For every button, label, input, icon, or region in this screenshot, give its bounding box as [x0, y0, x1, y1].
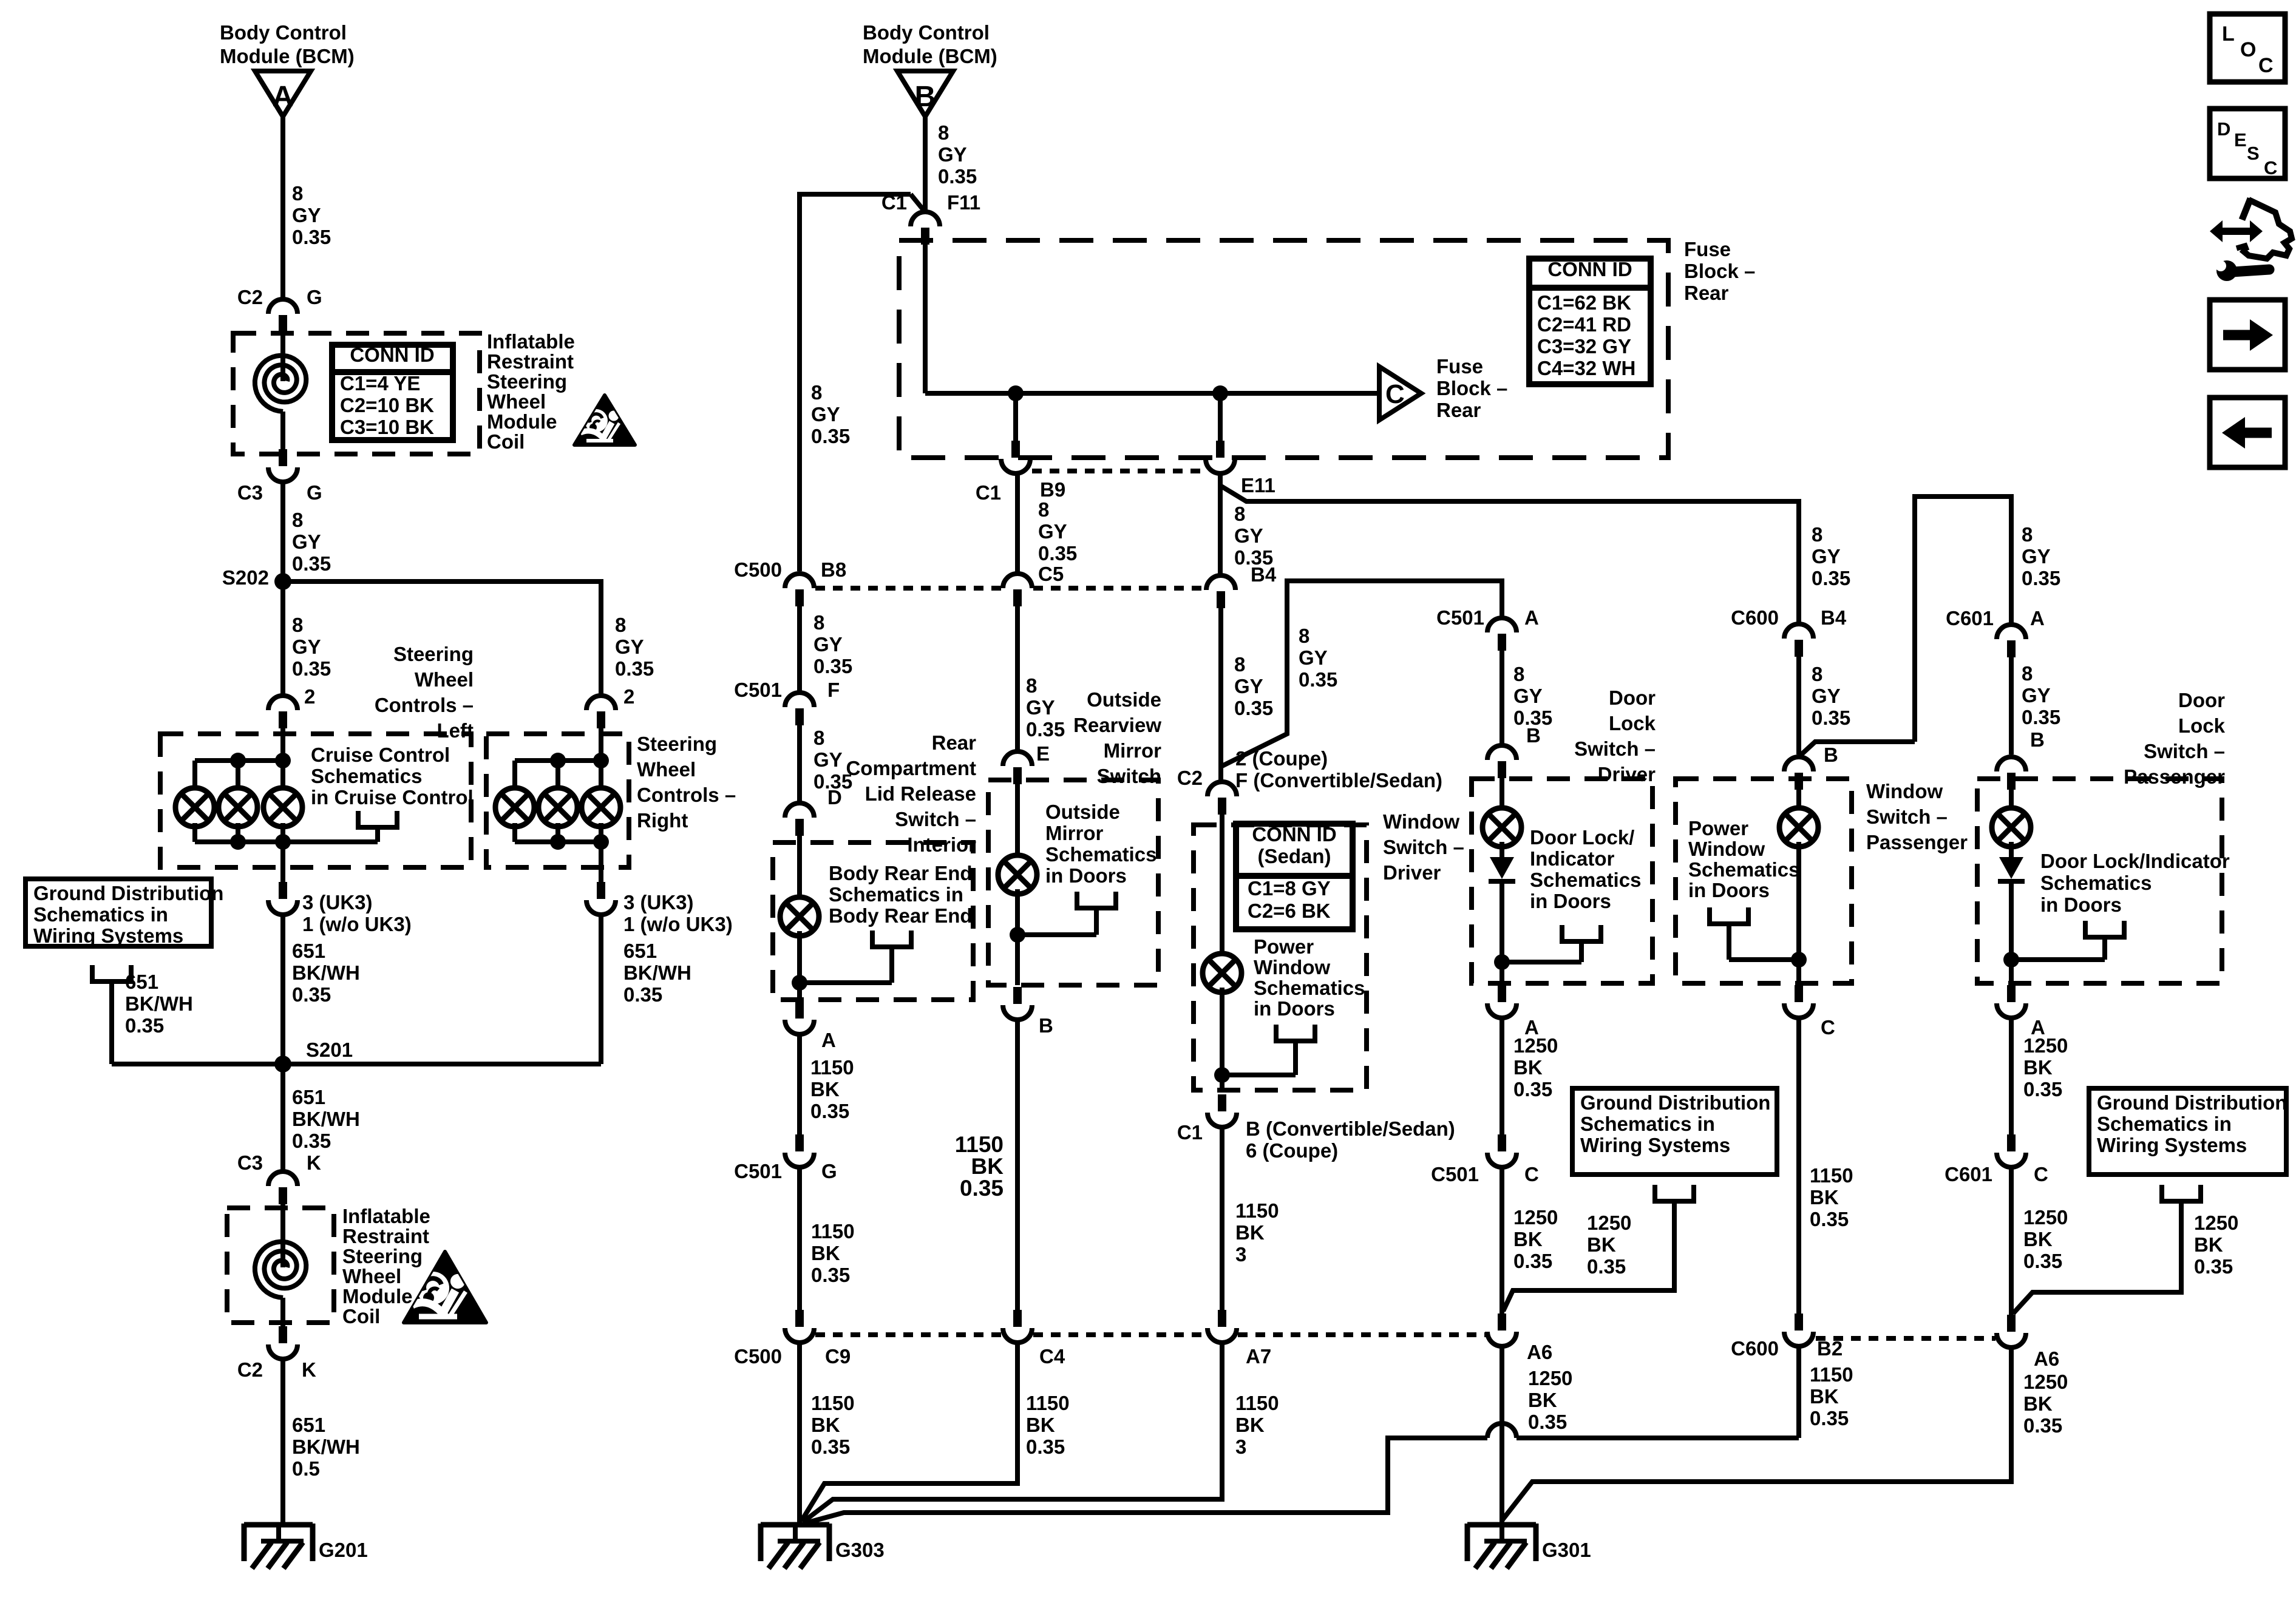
S201 horizontal [112, 1062, 601, 1066]
wire in right box [599, 728, 603, 790]
svg-text:G: G [821, 1160, 837, 1182]
wire B2 to G303 [804, 1346, 1799, 1524]
svg-text:A: A [2030, 607, 2045, 629]
connector B (col B) [1003, 987, 1032, 1020]
svg-text:Inflatable: Inflatable [487, 330, 575, 353]
label B (col E) [1824, 744, 1838, 766]
connector B9/E11 labels [976, 474, 1275, 504]
svg-text:Lock: Lock [2178, 714, 2226, 737]
svg-text:C500: C500 [734, 558, 782, 581]
svg-text:in Doors: in Doors [2040, 893, 2122, 916]
label 8 GY 0.35 (bridge) [2022, 523, 2060, 589]
label Inflatable Restraint SWM Coil 1 [487, 330, 575, 453]
coil box 1 (dashed) [233, 333, 480, 454]
label Outside Mirror Schematics [1045, 801, 1156, 887]
pw bus [1729, 957, 1799, 962]
svg-text:BK: BK [971, 1154, 1004, 1179]
svg-text:Wheel: Wheel [415, 668, 474, 691]
label 8 GY 0.35 (below C3) [292, 509, 331, 575]
cruise bottom stubs [195, 823, 283, 844]
branch to C501A [1222, 581, 1502, 766]
svg-text:GY: GY [1234, 675, 1263, 697]
svg-text:B: B [1039, 1014, 1053, 1037]
svg-text:Schematics: Schematics [1254, 977, 1365, 999]
svg-text:8: 8 [1038, 498, 1049, 521]
wire B to C4 [1015, 1020, 1020, 1310]
cruise lamp 3 [263, 788, 302, 827]
label B (col D) [1526, 724, 1541, 747]
svg-text:CONN ID: CONN ID [1547, 258, 1632, 280]
connector E [1003, 751, 1032, 784]
wire E11 down [1218, 473, 1223, 574]
svg-text:Window: Window [1383, 810, 1459, 833]
svg-text:Mirror: Mirror [1045, 822, 1104, 844]
svg-text:1250: 1250 [2023, 1034, 2068, 1057]
svg-text:BK: BK [811, 1242, 840, 1264]
svg-text:0.35: 0.35 [1812, 707, 1850, 729]
svg-text:0.35: 0.35 [1810, 1407, 1849, 1429]
wire A to B (col D) [1500, 651, 1504, 745]
svg-text:8: 8 [813, 727, 824, 749]
connector C5 [1003, 563, 1064, 606]
svg-text:BK: BK [2023, 1228, 2053, 1250]
fuse block rear box (dashed) [899, 240, 1668, 458]
svg-text:C: C [1385, 379, 1405, 409]
svg-text:Steering: Steering [637, 733, 717, 755]
svg-text:Body Control: Body Control [863, 21, 990, 44]
svg-text:in Doors: in Doors [1045, 864, 1127, 887]
svg-text:Schematics in: Schematics in [1580, 1113, 1715, 1135]
wire in mirror box [1015, 784, 1020, 860]
svg-text:Inflatable: Inflatable [342, 1205, 430, 1227]
svg-text:651: 651 [292, 1086, 325, 1108]
wire C601C to A6 [2009, 1167, 2014, 1315]
label Inflatable Restraint SWM Coil 2 [342, 1205, 430, 1327]
label 1150 BK 0.35 (B2) [1810, 1363, 1853, 1429]
svg-text:0.35: 0.35 [1528, 1411, 1567, 1433]
svg-text:0.35: 0.35 [615, 657, 654, 680]
svg-text:Driver: Driver [1598, 763, 1656, 785]
connector C601/A [1997, 625, 2026, 657]
SIR warning triangle 1 [574, 395, 635, 445]
svg-text:A7: A7 [1246, 1345, 1271, 1368]
connector C1/F11 labels [881, 191, 980, 214]
svg-text:C1=8 GY: C1=8 GY [1248, 877, 1331, 900]
label 1150 BK 3 (C1) [1235, 1199, 1279, 1266]
dld bus [1502, 960, 1581, 964]
svg-text:C3=32 GY: C3=32 GY [1537, 335, 1631, 358]
wire in rear box [797, 836, 802, 902]
svg-text:GY: GY [1513, 685, 1543, 707]
svg-text:A: A [821, 1029, 836, 1051]
wire out of coil 1 [280, 412, 285, 449]
svg-text:Door: Door [1609, 686, 1656, 709]
svg-text:B (Convertible/Sedan): B (Convertible/Sedan) [1246, 1117, 1455, 1140]
svg-text:Coil: Coil [342, 1305, 380, 1327]
svg-text:G: G [307, 286, 322, 308]
right lamp 3 [582, 788, 620, 827]
connector C2/K labels [237, 1358, 316, 1381]
svg-text:Door Lock/: Door Lock/ [1530, 826, 1634, 849]
svg-text:C600: C600 [1731, 1337, 1779, 1360]
right bottom dots [550, 834, 609, 850]
svg-text:Door: Door [2178, 689, 2225, 711]
svg-text:Fuse: Fuse [1436, 355, 1483, 378]
svg-text:C2: C2 [237, 1358, 263, 1381]
label 8 GY 0.35 (C600) [1812, 663, 1850, 729]
wire below mirror lamp [1015, 889, 1020, 985]
svg-text:Schematics in: Schematics in [2097, 1113, 2232, 1135]
svg-text:8: 8 [1812, 523, 1822, 546]
BCM label left [220, 21, 355, 67]
label 8 GY 0.35 (E11-B4) [1234, 503, 1273, 569]
wire right branch to S201 [599, 915, 603, 1064]
wire C501C to A6 [1500, 1167, 1504, 1314]
wire E11 branch right [1220, 473, 1799, 624]
wire B inside fuse box [923, 244, 928, 393]
svg-text:3: 3 [1235, 1436, 1246, 1458]
svg-text:D: D [827, 786, 842, 808]
label 1250 BK 0.35 (ref right) [2194, 1212, 2238, 1278]
svg-text:C: C [2264, 157, 2277, 178]
svg-text:2 (Coupe): 2 (Coupe) [1235, 747, 1328, 770]
svg-text:B: B [915, 81, 936, 113]
svg-text:Switch –: Switch – [1383, 836, 1464, 858]
svg-text:Block –: Block – [1436, 377, 1507, 399]
dlp dot [2003, 952, 2019, 968]
wire B8 to C501F [797, 606, 802, 693]
svg-text:0.35: 0.35 [292, 1130, 331, 1152]
svg-text:8: 8 [292, 614, 303, 636]
svg-text:C2: C2 [1177, 767, 1203, 789]
svg-text:B: B [1526, 724, 1541, 747]
label 651 BK/WH (below S201) [292, 1086, 360, 1152]
svg-text:1150: 1150 [1026, 1392, 1070, 1414]
wire A6 to G301 [1500, 1346, 1504, 1525]
connector C501/C labels [1431, 1163, 1539, 1185]
svg-text:Schematics: Schematics [311, 765, 422, 787]
svg-text:S: S [2247, 143, 2260, 164]
connector C2 colC [1207, 782, 1237, 815]
cruise bottom dots [230, 834, 291, 850]
svg-text:GY: GY [1812, 685, 1841, 707]
cruise bottom bus [195, 839, 378, 844]
connector 2 left [268, 696, 297, 728]
label 2 right [623, 685, 634, 708]
svg-text:Schematics: Schematics [1688, 858, 1799, 881]
cruise top dots [230, 753, 291, 768]
wire out of coil 2 [280, 1298, 285, 1326]
label 8 GY 0.35 (F-D) [813, 727, 852, 793]
label Door Lock Indicator Schematics (driver) [1530, 826, 1641, 912]
svg-text:Wheel: Wheel [487, 390, 546, 413]
svg-text:0.35: 0.35 [292, 226, 331, 248]
winsw lamp [1203, 954, 1241, 992]
svg-text:651: 651 [292, 1414, 325, 1436]
label 8 GY 0.35 (B9-C5) [1038, 498, 1077, 564]
right bottom bus [515, 839, 601, 844]
svg-text:C: C [2258, 54, 2274, 77]
right top bus [515, 761, 601, 792]
connector E11 [1206, 441, 1235, 473]
label A7 [1246, 1345, 1271, 1368]
svg-text:C5: C5 [1038, 563, 1064, 585]
wire BCM-B down [923, 117, 928, 210]
svg-text:8: 8 [2022, 523, 2033, 546]
right lamp 2 [538, 788, 577, 827]
connector D [785, 803, 814, 836]
wire C3 to S202 [280, 482, 285, 581]
svg-text:Window: Window [1688, 838, 1765, 860]
svg-text:1250: 1250 [1513, 1034, 1558, 1057]
connector C1/F11 [911, 212, 940, 245]
wire in dlp box [2009, 790, 2014, 812]
svg-text:C2=41 RD: C2=41 RD [1537, 313, 1631, 336]
node S201 [274, 1039, 353, 1073]
svg-text:Schematics: Schematics [2040, 872, 2152, 894]
connector C1 (col C bottom) [1207, 1094, 1237, 1127]
svg-text:Module: Module [342, 1285, 412, 1307]
svg-text:Block –: Block – [1684, 260, 1755, 282]
connector C2 labels [237, 286, 322, 308]
label 8 GY 0.35 (B wire) [938, 121, 977, 188]
cruise lamp 1 [175, 788, 214, 827]
svg-text:GY: GY [1038, 520, 1067, 543]
ground dist bracket mid [1503, 1185, 1694, 1311]
connector C600/B2 [1784, 1314, 1813, 1346]
svg-text:D: D [2217, 118, 2230, 140]
svg-text:Power: Power [1688, 817, 1748, 839]
label B (col B) [1039, 1014, 1053, 1037]
wire in winsw box [1220, 815, 1224, 958]
svg-text:8: 8 [1513, 663, 1524, 685]
svg-text:BK: BK [1810, 1385, 1839, 1408]
label 8 GY 0.35 (A wire) [292, 182, 331, 248]
svg-text:Compartment: Compartment [846, 757, 976, 779]
svg-text:GY: GY [813, 748, 843, 771]
connector C601/A labels [1946, 607, 2045, 629]
connector C3 labels [237, 481, 322, 504]
svg-text:1150: 1150 [1235, 1199, 1279, 1222]
svg-text:GY: GY [292, 204, 321, 226]
label 8 GY 0.35 (C5-E) [1026, 674, 1065, 741]
label 8 GY 0.35 (C501A) [1513, 663, 1552, 729]
label C2 (col C) [1177, 767, 1203, 789]
bus junction dots [1008, 385, 1228, 401]
svg-text:C1=4 YE: C1=4 YE [340, 372, 420, 395]
label 8 GY 0.35 right branch [615, 614, 654, 680]
rear box lamp [780, 897, 819, 936]
svg-text:0.35: 0.35 [2023, 1250, 2062, 1272]
label 1150 BK 0.35 (C4) [1026, 1392, 1070, 1458]
svg-text:B4: B4 [1251, 563, 1277, 586]
svg-text:0.35: 0.35 [938, 165, 977, 188]
svg-text:Schematics in: Schematics in [829, 883, 963, 906]
svg-text:G201: G201 [319, 1539, 368, 1561]
svg-text:0.35: 0.35 [292, 983, 331, 1006]
connector B2 labels [1731, 1337, 1843, 1360]
wire F to D [797, 725, 802, 803]
icon box arrow right [2210, 300, 2285, 370]
svg-text:C601: C601 [1946, 607, 1994, 629]
svg-text:8: 8 [811, 381, 822, 404]
svg-text:Ground Distribution: Ground Distribution [1580, 1091, 1770, 1114]
label B4 (col C) [1251, 563, 1277, 586]
svg-text:2: 2 [304, 685, 315, 708]
svg-text:in Doors: in Doors [1530, 890, 1611, 912]
svg-text:Wiring Systems: Wiring Systems [33, 924, 183, 947]
pw bracket [1710, 907, 1748, 960]
wire BCM-A to C2 [280, 117, 285, 299]
winsw dot [1214, 1067, 1230, 1083]
svg-text:C3: C3 [237, 481, 263, 504]
outside mirror box (dashed) [988, 780, 1158, 985]
svg-text:Restraint: Restraint [342, 1225, 429, 1247]
svg-text:1150: 1150 [955, 1132, 1004, 1157]
connector C601/C labels [1944, 1163, 2048, 1185]
wire below dlp diode [2009, 879, 2014, 983]
label Outside Rearview Mirror Switch [1073, 688, 1161, 787]
svg-text:GY: GY [2022, 684, 2051, 707]
wire C4 to G303 [801, 1343, 1017, 1521]
svg-text:GY: GY [1812, 545, 1841, 568]
connector B colF [1997, 757, 2026, 790]
connector B4 colC [1206, 575, 1235, 608]
icon box LOC [2210, 14, 2285, 82]
svg-text:C3=10 BK: C3=10 BK [340, 416, 434, 438]
svg-text:3 (UK3): 3 (UK3) [623, 891, 694, 914]
svg-text:Ground Distribution: Ground Distribution [33, 882, 223, 904]
label 651 BK/WH left [292, 940, 360, 1006]
svg-text:1150: 1150 [1810, 1164, 1853, 1187]
pw lamp [1779, 808, 1818, 847]
right bottom stubs [515, 823, 601, 844]
svg-text:0.35: 0.35 [1038, 542, 1077, 564]
label 651 BK/WH 0.35 (ref) [125, 971, 193, 1037]
svg-text:Right: Right [637, 809, 688, 832]
rear box bus [800, 980, 892, 985]
svg-text:0.35: 0.35 [2023, 1078, 2062, 1100]
svg-text:8: 8 [1234, 653, 1245, 676]
wire A to C501C [1500, 1018, 1504, 1134]
label 1150 BK 0.35 (G) [811, 1220, 855, 1286]
winsw bus [1222, 1073, 1296, 1077]
label 1250 BK 0.35 (A6) [1528, 1367, 1572, 1433]
svg-text:1150: 1150 [1235, 1392, 1279, 1414]
label 651 BK/WH 0.5 [292, 1414, 360, 1480]
svg-text:0.35: 0.35 [2022, 706, 2060, 728]
svg-text:1 (w/o UK3): 1 (w/o UK3) [623, 913, 733, 935]
svg-text:GY: GY [938, 143, 967, 166]
label A (col D) [1524, 1016, 1539, 1039]
node S202 [222, 566, 291, 590]
svg-text:GY: GY [813, 633, 843, 656]
ground distribution ref box right [2089, 1088, 2287, 1175]
dlp bracket [2085, 921, 2124, 960]
svg-text:Schematics: Schematics [1045, 843, 1156, 866]
bridge join colE [1800, 742, 1915, 756]
svg-text:2: 2 [623, 685, 634, 708]
rear box bracket [872, 931, 911, 983]
triangle C fuse block [1379, 367, 1421, 420]
mirror bracket [1077, 892, 1116, 935]
connector A6 (col D) [1487, 1314, 1517, 1346]
svg-text:C501: C501 [734, 679, 782, 701]
svg-text:8: 8 [292, 509, 303, 531]
svg-text:Steering: Steering [342, 1245, 423, 1267]
connector C501/C [1487, 1134, 1517, 1167]
svg-text:K: K [302, 1358, 316, 1381]
label 8 GY 0.35 (C600 feed) [1812, 523, 1850, 589]
label 1250 BK 0.35 (colF C) [2023, 1206, 2068, 1272]
rear box dot [792, 975, 807, 991]
svg-text:CONN ID: CONN ID [350, 344, 434, 366]
label E [1036, 742, 1050, 765]
svg-text:1250: 1250 [1528, 1367, 1572, 1389]
svg-text:BK: BK [2194, 1233, 2223, 1256]
svg-text:Cruise Control: Cruise Control [311, 744, 450, 766]
ground dist bracket right [2013, 1185, 2201, 1314]
svg-text:0.35: 0.35 [2022, 567, 2060, 589]
svg-text:Ground Distribution: Ground Distribution [2097, 1091, 2287, 1114]
svg-text:651: 651 [623, 940, 657, 962]
svg-text:8: 8 [292, 182, 303, 205]
wire in pw box [1796, 790, 1801, 812]
label 8 GY 0.35 (C500 rail) [811, 381, 850, 447]
wire below cruise box [280, 842, 285, 882]
BCM triangle A [255, 71, 311, 117]
label C (col E) [1821, 1016, 1835, 1039]
svg-text:BK/WH: BK/WH [292, 1436, 360, 1458]
svg-text:1250: 1250 [2194, 1212, 2238, 1234]
svg-text:1150: 1150 [811, 1392, 855, 1414]
label Body Rear End Schematics [829, 862, 973, 927]
svg-text:Fuse: Fuse [1684, 238, 1731, 260]
label B (col F) [2030, 728, 2045, 751]
svg-text:C501: C501 [734, 1160, 782, 1182]
svg-text:Window: Window [1866, 780, 1943, 802]
label A6 (col D) [1527, 1341, 1552, 1363]
svg-text:1150: 1150 [811, 1220, 855, 1242]
window switch driver box (dashed) [1194, 825, 1367, 1090]
mirror lamp [998, 855, 1037, 894]
svg-text:8: 8 [938, 121, 949, 144]
wire G to C9 [797, 1167, 802, 1310]
wire C1 to A7 [1220, 1127, 1224, 1310]
svg-text:1150: 1150 [810, 1056, 854, 1079]
svg-text:F11: F11 [947, 191, 980, 214]
wire C to B2 [1796, 1018, 1801, 1314]
wire into coil 2 [280, 1204, 285, 1267]
svg-text:E11: E11 [1241, 474, 1275, 497]
svg-text:0.35: 0.35 [1812, 567, 1850, 589]
svg-text:0.35: 0.35 [1234, 697, 1273, 719]
connector C500/B8 [785, 574, 814, 606]
svg-text:0.35: 0.35 [1587, 1255, 1626, 1278]
svg-text:8: 8 [1026, 674, 1037, 697]
svg-text:Wheel: Wheel [637, 758, 696, 781]
svg-text:A: A [1524, 606, 1539, 629]
svg-text:C4: C4 [1039, 1345, 1065, 1368]
label 1250 BK 0.35 (colD C) [1513, 1206, 1558, 1272]
BCM label mid [863, 21, 997, 67]
svg-text:1150: 1150 [1810, 1363, 1853, 1386]
svg-text:Rear: Rear [932, 731, 977, 754]
svg-text:0.35: 0.35 [960, 1176, 1004, 1201]
svg-text:BK: BK [1513, 1056, 1543, 1079]
wire C2/K to G201 [280, 1359, 285, 1525]
label Fuse Block Rear (box) [1684, 238, 1755, 304]
